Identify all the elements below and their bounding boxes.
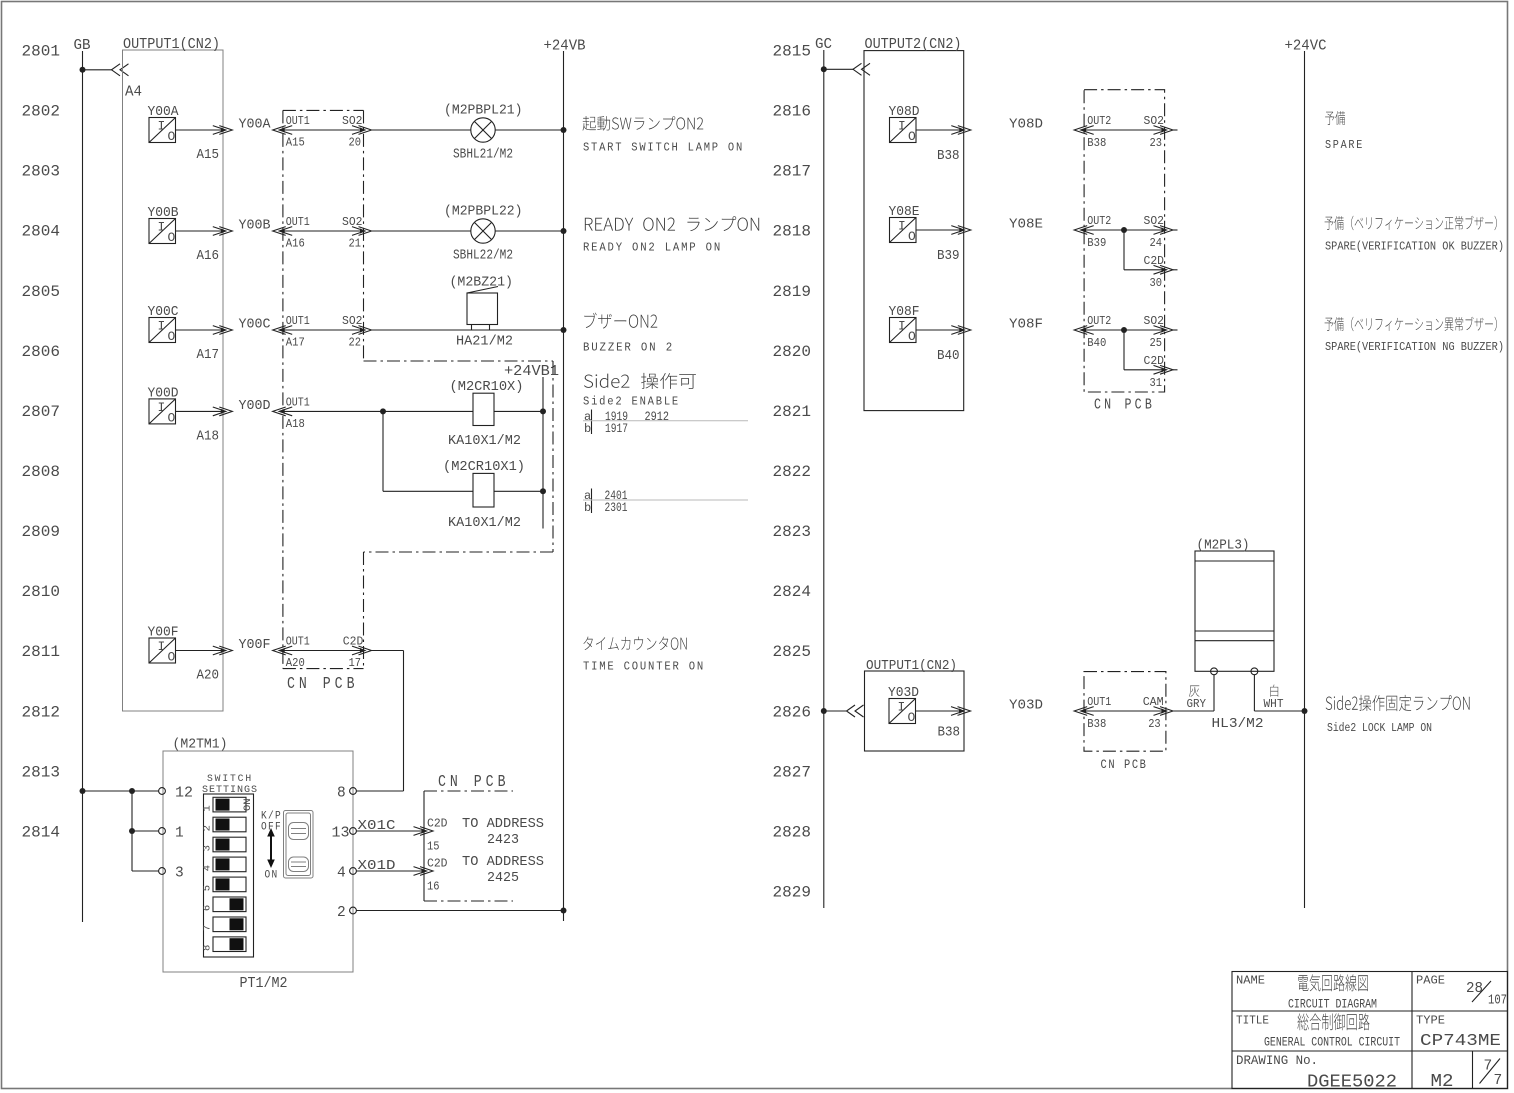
svg-text:2801: 2801 bbox=[22, 43, 61, 61]
svg-text:O: O bbox=[908, 229, 916, 244]
connector arrow out Y08F bbox=[959, 327, 964, 332]
svg-text:I: I bbox=[898, 119, 906, 134]
wire lamp SBHL22/M2 to +24VB bbox=[495, 230, 563, 232]
note: buzzer on 2 bbox=[584, 313, 657, 329]
wire Y00F to connector bbox=[176, 650, 222, 652]
svg-text:b: b bbox=[584, 501, 591, 515]
note: side2 enable bbox=[584, 373, 696, 389]
buzzer HA21/M2 (M2BZ21) bbox=[467, 293, 498, 325]
svg-text:(M2TM1): (M2TM1) bbox=[173, 738, 228, 753]
svg-text:O: O bbox=[168, 410, 176, 425]
svg-text:Side2 ENABLE: Side2 ENABLE bbox=[583, 395, 680, 409]
svg-text:2: 2 bbox=[337, 905, 346, 921]
svg-text:13: 13 bbox=[332, 826, 350, 842]
connector arrow out of CN PCB row Y00C bbox=[360, 327, 365, 332]
note: spare (row 2816) bbox=[1325, 111, 1345, 125]
svg-text:5: 5 bbox=[202, 885, 214, 891]
junction node relay branch bbox=[380, 408, 386, 414]
svg-text:2820: 2820 bbox=[773, 343, 812, 361]
GC bus wire (vertical) bbox=[823, 50, 825, 908]
I/O driver Y00F bbox=[149, 638, 176, 663]
connector arrow out Y00D bbox=[221, 409, 226, 414]
svg-text:2802: 2802 bbox=[22, 103, 61, 121]
svg-text:B39: B39 bbox=[1087, 236, 1106, 250]
I/O driver Y08D bbox=[890, 118, 917, 143]
note: ready on2 lamp on bbox=[585, 216, 759, 231]
svg-text:I: I bbox=[158, 400, 166, 415]
svg-text:(M2CR10X1): (M2CR10X1) bbox=[443, 460, 525, 475]
wire through CN PCB Y00A row bbox=[280, 129, 365, 131]
slide switch symbol bbox=[284, 811, 314, 879]
svg-text:SPARE(VERIFICATION NG BUZZER): SPARE(VERIFICATION NG BUZZER) bbox=[1325, 340, 1504, 354]
I/O driver Y08E bbox=[890, 218, 917, 243]
OUTPUT1(CN2) module box (row 2826) bbox=[865, 671, 965, 751]
svg-text:Y00C: Y00C bbox=[239, 318, 271, 333]
svg-text:OUT2: OUT2 bbox=[1087, 214, 1111, 228]
svg-text:2912: 2912 bbox=[645, 409, 670, 424]
svg-text:Y00B: Y00B bbox=[148, 206, 179, 221]
svg-text:23: 23 bbox=[1150, 136, 1163, 150]
connector arrow into CN PCB Y03D bbox=[1081, 708, 1086, 713]
svg-text:1: 1 bbox=[175, 826, 184, 842]
wire through CN PCB Y03D row bbox=[1082, 710, 1167, 712]
CN PCB board outline right (dash-dot) bbox=[1084, 90, 1165, 392]
wire through CN PCB Y08F row bbox=[1082, 329, 1167, 331]
lamp M2PL3 terminal GRY bbox=[1211, 668, 1218, 675]
OUTPUT2(CN2) module box bbox=[864, 51, 964, 411]
relay coil KA10X1/M2 (M2CR10X) bbox=[473, 393, 494, 425]
svg-text:2828: 2828 bbox=[773, 823, 812, 841]
connector arrow out Y08E bbox=[959, 227, 964, 232]
svg-text:1: 1 bbox=[202, 805, 214, 811]
+24VB power rail (vertical) bbox=[563, 51, 565, 921]
svg-text:NAME: NAME bbox=[1236, 975, 1265, 988]
svg-text:I: I bbox=[158, 220, 166, 235]
lamp (M2PBPL21) SBHL21/M2 bbox=[471, 118, 495, 142]
svg-text:TO ADDRESS: TO ADDRESS bbox=[462, 817, 544, 832]
pin 3 bbox=[159, 868, 166, 875]
connector arrow into CN PCB Y08F bbox=[1081, 327, 1086, 332]
connector arrow out SO2/25 bbox=[1162, 327, 1167, 332]
svg-text:2807: 2807 bbox=[22, 403, 61, 421]
svg-text:Y00A: Y00A bbox=[239, 118, 272, 133]
svg-text:4: 4 bbox=[202, 865, 214, 871]
svg-text:2824: 2824 bbox=[773, 583, 812, 601]
svg-text:(M2PBPL21): (M2PBPL21) bbox=[444, 104, 523, 119]
svg-text:Y00D: Y00D bbox=[239, 399, 271, 414]
svg-text:2819: 2819 bbox=[773, 283, 812, 301]
I/O driver Y00A bbox=[149, 118, 176, 143]
DIP switch column (M2TM1 switch settings) bbox=[202, 794, 255, 957]
svg-text:WHT: WHT bbox=[1264, 697, 1284, 711]
svg-text:2301: 2301 bbox=[605, 500, 628, 515]
right rung numbers 2815-2829 bbox=[773, 43, 812, 902]
svg-text:SPARE(VERIFICATION OK BUZZER): SPARE(VERIFICATION OK BUZZER) bbox=[1325, 240, 1504, 254]
svg-text:I: I bbox=[898, 319, 906, 334]
svg-text:TIME COUNTER ON: TIME COUNTER ON bbox=[583, 660, 705, 674]
svg-text:2829: 2829 bbox=[773, 884, 812, 902]
lamp (M2PBPL22) SBHL22/M2 bbox=[471, 219, 495, 243]
svg-text:B38: B38 bbox=[1087, 717, 1106, 731]
svg-text:A16: A16 bbox=[197, 249, 220, 264]
connector arrow out SO2/24 bbox=[1162, 227, 1167, 232]
note: time counter on bbox=[583, 637, 686, 650]
svg-text:20: 20 bbox=[349, 136, 362, 150]
connector arrow out Y03D bbox=[959, 708, 964, 713]
svg-text:I: I bbox=[898, 700, 906, 715]
svg-text:A16: A16 bbox=[286, 237, 305, 251]
svg-text:A18: A18 bbox=[286, 417, 305, 431]
wire color label WHT bbox=[1270, 685, 1278, 697]
svg-text:7: 7 bbox=[1494, 1073, 1503, 1089]
svg-text:OUT1: OUT1 bbox=[286, 635, 310, 649]
svg-text:A17: A17 bbox=[286, 336, 305, 350]
svg-text:OUT1: OUT1 bbox=[286, 395, 310, 409]
svg-text:2816: 2816 bbox=[773, 103, 812, 121]
svg-text:CN PCB: CN PCB bbox=[1094, 398, 1155, 414]
svg-text:BUZZER ON 2: BUZZER ON 2 bbox=[583, 341, 674, 355]
svg-text:ON: ON bbox=[265, 870, 279, 882]
svg-text:I: I bbox=[898, 219, 906, 234]
svg-text:24: 24 bbox=[1150, 236, 1163, 250]
svg-text:2813: 2813 bbox=[22, 763, 61, 781]
svg-text:Y00A: Y00A bbox=[148, 105, 180, 120]
svg-text:2818: 2818 bbox=[773, 223, 812, 241]
svg-text:DRAWING No.: DRAWING No. bbox=[1236, 1054, 1318, 1068]
note: start switch lamp on bbox=[582, 116, 703, 131]
svg-text:23: 23 bbox=[1148, 717, 1161, 731]
wire to buzzer HA21/M2 bbox=[372, 329, 564, 331]
svg-text:2812: 2812 bbox=[22, 703, 61, 721]
svg-text:HA21/M2: HA21/M2 bbox=[456, 335, 513, 350]
wire to lamp SBHL21/M2 bbox=[372, 129, 471, 131]
svg-text:Y03D: Y03D bbox=[888, 686, 919, 701]
note: spare verification ok buzzer bbox=[1325, 216, 1497, 230]
svg-text:A17: A17 bbox=[197, 348, 220, 363]
svg-text:2815: 2815 bbox=[773, 43, 812, 61]
connector arrow out of CN PCB Y00F bbox=[360, 648, 365, 653]
lamp M2PL3 terminal WHT bbox=[1251, 668, 1258, 675]
svg-text:1917: 1917 bbox=[605, 421, 628, 436]
svg-text:B39: B39 bbox=[937, 249, 960, 264]
svg-text:M2: M2 bbox=[1431, 1072, 1454, 1092]
I/O driver Y08F bbox=[890, 318, 917, 343]
svg-text:B38: B38 bbox=[1087, 136, 1106, 150]
svg-text:7: 7 bbox=[202, 925, 214, 931]
+24VC power rail (vertical) bbox=[1304, 51, 1306, 908]
svg-text:A20: A20 bbox=[197, 669, 220, 684]
junction +24VC row 2826 bbox=[1302, 708, 1308, 714]
svg-text:8: 8 bbox=[202, 945, 214, 951]
svg-text:A15: A15 bbox=[197, 148, 220, 163]
svg-text:(M2PBPL22): (M2PBPL22) bbox=[444, 205, 523, 220]
junction GC row 2826 bbox=[821, 708, 827, 714]
svg-text:I: I bbox=[158, 639, 166, 654]
timer module PT1/M2 (M2TM1) outline bbox=[163, 751, 353, 972]
svg-text:17: 17 bbox=[349, 656, 362, 670]
svg-text:CN PCB: CN PCB bbox=[1101, 757, 1148, 772]
connector arrow out of CN PCB row Y00B bbox=[360, 228, 365, 233]
left rung numbers 2801-2814 bbox=[22, 43, 61, 842]
svg-text:B38: B38 bbox=[938, 726, 961, 741]
connector chevron into OUTPUT1 row 2826 bbox=[847, 705, 864, 717]
CN PCB board outline (dash-dot) bbox=[283, 110, 553, 668]
junction GB to OUTPUT1 bbox=[80, 67, 86, 73]
svg-text:O: O bbox=[908, 710, 916, 725]
svg-text:A20: A20 bbox=[286, 656, 305, 670]
svg-text:2808: 2808 bbox=[22, 463, 61, 481]
wire Y08F to connector bbox=[916, 329, 960, 331]
wire Y00D to connector bbox=[176, 410, 222, 412]
wire Y08E to connector bbox=[916, 229, 960, 231]
I/O driver Y00C bbox=[149, 318, 176, 343]
svg-text:OUT1: OUT1 bbox=[286, 314, 310, 328]
wire through CN PCB Y00C row bbox=[280, 329, 365, 331]
svg-text:PT1/M2: PT1/M2 bbox=[240, 976, 288, 992]
svg-text:TO ADDRESS: TO ADDRESS bbox=[462, 855, 544, 870]
svg-text:2811: 2811 bbox=[22, 643, 61, 661]
connector arrow into CN PCB Y08E bbox=[1081, 227, 1086, 232]
svg-text:B38: B38 bbox=[937, 149, 960, 164]
svg-text:TITLE: TITLE bbox=[1236, 1015, 1269, 1028]
svg-text:OUT1: OUT1 bbox=[286, 114, 310, 128]
svg-text:Y08E: Y08E bbox=[889, 205, 920, 220]
svg-text:SBHL22/M2: SBHL22/M2 bbox=[453, 249, 513, 264]
svg-text:Y00D: Y00D bbox=[148, 386, 179, 401]
svg-text:B40: B40 bbox=[1087, 336, 1106, 350]
wire through CN PCB Y08E row bbox=[1082, 229, 1167, 231]
svg-text:12: 12 bbox=[175, 786, 193, 802]
svg-text:O: O bbox=[908, 129, 916, 144]
svg-text:A18: A18 bbox=[197, 429, 220, 444]
svg-text:O: O bbox=[908, 329, 916, 344]
wire Y03D to connector bbox=[916, 710, 960, 712]
svg-text:A15: A15 bbox=[286, 136, 305, 150]
connector chevron into OUTPUT1 A4 bbox=[112, 64, 129, 76]
svg-text:4: 4 bbox=[337, 866, 346, 882]
svg-text:15: 15 bbox=[427, 840, 440, 854]
lamp module M2PL3 outline bbox=[1195, 551, 1274, 671]
svg-text:2809: 2809 bbox=[22, 523, 61, 541]
connector arrow out Y00B bbox=[221, 228, 226, 233]
svg-text:SBHL21/M2: SBHL21/M2 bbox=[453, 148, 513, 163]
connector arrow out Y08D bbox=[959, 127, 964, 132]
svg-text:GRY: GRY bbox=[1187, 697, 1207, 711]
svg-text:CIRCUIT DIAGRAM: CIRCUIT DIAGRAM bbox=[1288, 998, 1377, 1012]
svg-text:107: 107 bbox=[1488, 994, 1507, 1009]
CN PCB box row 2826 (dash-dot) bbox=[1084, 672, 1166, 752]
svg-text:C2D: C2D bbox=[427, 817, 448, 831]
wire lamp SBHL21/M2 to +24VB bbox=[495, 129, 563, 131]
wire through CN PCB Y00F row bbox=[280, 650, 365, 652]
I/O driver Y03D bbox=[889, 699, 916, 724]
svg-text:OUT1: OUT1 bbox=[1087, 695, 1111, 709]
wire color label GRY bbox=[1189, 685, 1200, 696]
+24VB1 rail (vertical) bbox=[542, 377, 544, 529]
svg-text:SPARE: SPARE bbox=[1325, 138, 1364, 152]
svg-text:28: 28 bbox=[1466, 981, 1483, 997]
wire Y00C to connector bbox=[176, 329, 222, 331]
svg-text:Y08F: Y08F bbox=[889, 305, 920, 320]
svg-text:3: 3 bbox=[175, 866, 184, 882]
connector arrow out Y00C bbox=[221, 327, 226, 332]
wire Y08D to connector bbox=[916, 129, 960, 131]
svg-text:I: I bbox=[158, 119, 166, 134]
connector arrow into CN PCB Y00F bbox=[280, 648, 285, 653]
svg-text:A4: A4 bbox=[125, 85, 142, 101]
connector arrow into CN PCB Y00B bbox=[280, 228, 285, 233]
svg-text:OUT2: OUT2 bbox=[1087, 114, 1111, 128]
svg-text:Side2 LOCK LAMP ON: Side2 LOCK LAMP ON bbox=[1327, 721, 1432, 735]
wire Y00D to relay KA10X1 bbox=[280, 410, 473, 412]
OUTPUT1(CN2) module box bbox=[123, 50, 224, 711]
wire second relay to +24VB1 bbox=[494, 490, 543, 492]
junction on +24VB row 130 bbox=[561, 127, 567, 133]
svg-text:Y08F: Y08F bbox=[1009, 318, 1043, 333]
junction buzzer row on +24VB bbox=[561, 327, 567, 333]
svg-text:DGEE5022: DGEE5022 bbox=[1307, 1073, 1397, 1093]
connector arrow out SO2/23 bbox=[1162, 127, 1167, 132]
connector arrow out Y00F bbox=[221, 648, 226, 653]
svg-text:2823: 2823 bbox=[773, 523, 812, 541]
connector arrow into CN PCB Y00D bbox=[280, 409, 285, 414]
svg-text:2804: 2804 bbox=[22, 223, 61, 241]
svg-text:O: O bbox=[168, 230, 176, 245]
junction GC to OUTPUT2 bbox=[821, 66, 827, 72]
svg-text:OUT1: OUT1 bbox=[286, 215, 310, 229]
svg-text:30: 30 bbox=[1150, 276, 1163, 290]
svg-text:C2D: C2D bbox=[427, 857, 448, 871]
svg-text:HL3/M2: HL3/M2 bbox=[1212, 717, 1264, 732]
svg-text:2825: 2825 bbox=[773, 643, 812, 661]
svg-text:2827: 2827 bbox=[773, 763, 812, 781]
svg-text:B40: B40 bbox=[937, 349, 960, 364]
connector arrow out of CN PCB row Y00A bbox=[360, 127, 365, 132]
svg-text:KA10X1/M2: KA10X1/M2 bbox=[448, 434, 521, 449]
wire to lamp SBHL22/M2 bbox=[372, 230, 471, 232]
pin 4 / X01D wire bbox=[350, 868, 357, 875]
svg-text:2814: 2814 bbox=[22, 823, 61, 841]
pin 12 bbox=[159, 788, 166, 795]
svg-text:22: 22 bbox=[349, 336, 362, 350]
svg-text:(M2BZ21): (M2BZ21) bbox=[450, 276, 514, 291]
connector arrow into CN PCB Y08D bbox=[1081, 127, 1086, 132]
I/O driver Y00D bbox=[149, 399, 176, 424]
pin 13 / X01C wire bbox=[350, 828, 357, 835]
svg-text:X01D: X01D bbox=[358, 859, 396, 874]
branch to C2D/31 bbox=[1121, 327, 1127, 333]
left pins 12/1/3 wiring from GB bus bbox=[80, 788, 86, 794]
connector arrow out C2D/31 bbox=[1162, 367, 1167, 372]
svg-text:O: O bbox=[168, 329, 176, 344]
svg-text:2822: 2822 bbox=[773, 463, 812, 481]
connector chevron into OUTPUT2 bbox=[853, 63, 870, 75]
svg-text:+24VC: +24VC bbox=[1285, 39, 1327, 55]
svg-text:Y08E: Y08E bbox=[1009, 218, 1043, 233]
connector arrow out Y00A bbox=[221, 127, 226, 132]
svg-text:31: 31 bbox=[1150, 376, 1163, 390]
svg-text:2810: 2810 bbox=[22, 583, 61, 601]
svg-text:7: 7 bbox=[1484, 1059, 1493, 1075]
svg-text:CN PCB: CN PCB bbox=[287, 674, 359, 693]
pin 1 bbox=[159, 828, 166, 835]
relay coil KA10X1/M2 (M2CR10X1) bbox=[473, 473, 494, 507]
svg-text:2423: 2423 bbox=[487, 833, 519, 848]
svg-text:25: 25 bbox=[1150, 336, 1163, 350]
svg-text:START SWITCH LAMP ON: START SWITCH LAMP ON bbox=[583, 141, 744, 155]
svg-text:GENERAL CONTROL CIRCUIT: GENERAL CONTROL CIRCUIT bbox=[1264, 1036, 1400, 1050]
svg-text:O: O bbox=[168, 650, 176, 665]
svg-text:2821: 2821 bbox=[773, 403, 812, 421]
svg-text:Y00B: Y00B bbox=[239, 219, 271, 234]
svg-text:2806: 2806 bbox=[22, 343, 61, 361]
note: spare verification ng buzzer bbox=[1325, 317, 1497, 331]
svg-text:+24VB1: +24VB1 bbox=[504, 364, 559, 380]
wire through CN PCB Y08D row bbox=[1082, 129, 1167, 131]
svg-text:8: 8 bbox=[337, 786, 346, 802]
svg-text:2425: 2425 bbox=[487, 871, 519, 886]
svg-text:16: 16 bbox=[427, 880, 440, 894]
branch wire down to second relay bbox=[382, 411, 384, 491]
wire through CN PCB Y00B row bbox=[280, 230, 365, 232]
svg-text:OUTPUT1(CN2): OUTPUT1(CN2) bbox=[123, 37, 220, 53]
svg-text:b: b bbox=[584, 422, 591, 436]
svg-text:Y03D: Y03D bbox=[1009, 699, 1043, 714]
svg-text:OUTPUT2(CN2): OUTPUT2(CN2) bbox=[865, 37, 962, 53]
branch to C2D/30 bbox=[1121, 227, 1127, 233]
svg-text:O: O bbox=[168, 129, 176, 144]
wire Y00F to PT1 pin 8 bbox=[372, 650, 404, 652]
svg-text:2805: 2805 bbox=[22, 283, 61, 301]
svg-text:OUTPUT1(CN2): OUTPUT1(CN2) bbox=[866, 659, 957, 674]
connector arrow into CN PCB Y00C bbox=[280, 327, 285, 332]
svg-text:PAGE: PAGE bbox=[1416, 975, 1445, 988]
title block frame bbox=[1232, 972, 1508, 1089]
connector arrow out C2D/30 bbox=[1162, 267, 1167, 272]
junction on +24VB row 231 bbox=[561, 228, 567, 234]
svg-text:Y08D: Y08D bbox=[1009, 118, 1043, 133]
svg-text:Y08D: Y08D bbox=[889, 105, 920, 120]
svg-text:CP743ME: CP743ME bbox=[1420, 1032, 1501, 1051]
I/O driver Y00B bbox=[149, 219, 176, 244]
svg-text:TYPE: TYPE bbox=[1416, 1015, 1445, 1028]
svg-text:READY ON2 LAMP ON: READY ON2 LAMP ON bbox=[583, 241, 722, 255]
svg-text:21: 21 bbox=[349, 237, 362, 251]
svg-text:(M2PL3): (M2PL3) bbox=[1197, 539, 1250, 554]
svg-text:2: 2 bbox=[202, 825, 214, 831]
svg-text:2803: 2803 bbox=[22, 163, 61, 181]
wire relay to +24VB1 bbox=[494, 410, 543, 412]
svg-text:OUT2: OUT2 bbox=[1087, 314, 1111, 328]
CN PCB address box (dash-dot) bbox=[423, 791, 425, 901]
svg-text:Y00C: Y00C bbox=[148, 305, 179, 320]
svg-text:2817: 2817 bbox=[773, 163, 812, 181]
wire Y00A to connector bbox=[176, 129, 222, 131]
svg-text:3: 3 bbox=[202, 845, 214, 851]
svg-text:ON: ON bbox=[242, 798, 254, 811]
pin 2 wire to +24VB bbox=[350, 907, 357, 914]
svg-text:I: I bbox=[158, 319, 166, 334]
pin 8 bbox=[350, 788, 357, 795]
connector arrow into CN PCB Y00A bbox=[280, 127, 285, 132]
connector arrow out CAM bbox=[1162, 708, 1167, 713]
svg-text:Y00F: Y00F bbox=[239, 638, 271, 653]
svg-text:CN PCB: CN PCB bbox=[438, 772, 510, 791]
GB bus wire (vertical) bbox=[82, 51, 84, 922]
svg-text:(M2CR10X): (M2CR10X) bbox=[450, 380, 524, 395]
svg-text:6: 6 bbox=[202, 905, 214, 911]
svg-text:KA10X1/M2: KA10X1/M2 bbox=[448, 516, 521, 531]
